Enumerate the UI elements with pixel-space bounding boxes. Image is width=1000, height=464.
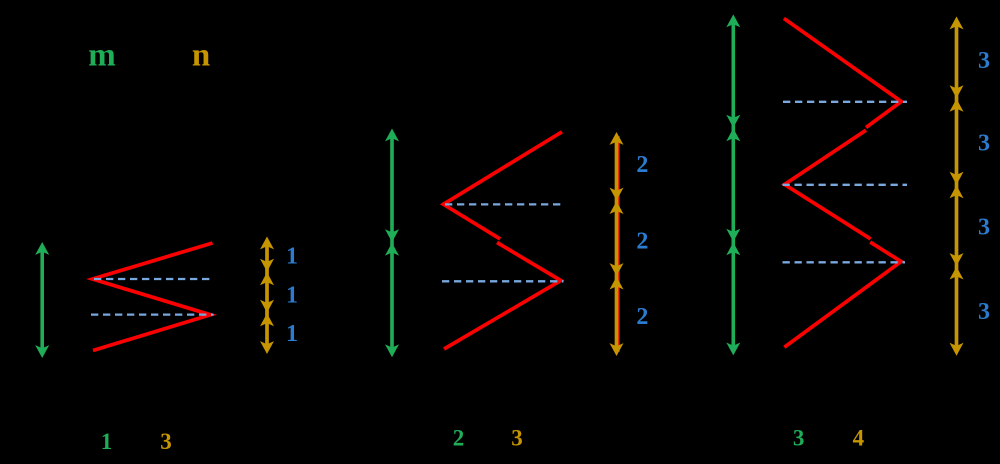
panel 2 dashed level 1 [445, 203, 564, 205]
svg-text:n: n [192, 37, 210, 73]
svg-text:3: 3 [511, 426, 523, 451]
svg-text:3: 3 [793, 426, 805, 451]
panel 3 red ray a [784, 18, 901, 127]
svg-text:1: 1 [101, 429, 113, 454]
panel 3 green arrow (m=3) [726, 14, 740, 355]
panel 2 red stripe behind orange arrow [618, 136, 620, 352]
panel 2 red ray upper [443, 132, 562, 239]
panel 2 dashed level 2 [442, 280, 564, 282]
svg-text:4: 4 [853, 426, 865, 451]
panel 3 dashed level 2 [783, 184, 908, 186]
svg-text:3: 3 [978, 131, 990, 157]
svg-text:2: 2 [636, 229, 648, 255]
panel 1 green arrow (m=1) [35, 242, 49, 358]
panel 3 red ray b [785, 130, 871, 239]
svg-text:2: 2 [636, 304, 648, 330]
svg-text:3: 3 [978, 215, 990, 241]
svg-text:1: 1 [286, 321, 298, 347]
panel 2 orange arrow (n=3) [610, 132, 624, 356]
svg-text:1: 1 [286, 243, 298, 269]
svg-text:2: 2 [636, 152, 648, 178]
panel 3 red ray c [784, 242, 901, 347]
panel 1 dashed level 1 [94, 278, 214, 280]
svg-text:3: 3 [978, 299, 990, 325]
panel 3 dashed level 3 [783, 261, 906, 263]
svg-text:1: 1 [286, 283, 298, 309]
panel 2 green arrow (m=2) [385, 129, 399, 358]
svg-text:2: 2 [453, 426, 465, 451]
panel 1 orange arrow (n=3) [260, 237, 274, 355]
panel 2 red ray lower [444, 243, 561, 350]
svg-text:3: 3 [978, 48, 990, 74]
panel 3 orange arrow (n=4) [950, 17, 964, 356]
panel 3 dashed level 1 [783, 101, 907, 103]
panel 1 red ray [93, 243, 213, 351]
svg-text:m: m [88, 37, 116, 73]
panel 1 dashed level 2 [91, 313, 214, 315]
svg-text:3: 3 [160, 429, 172, 454]
